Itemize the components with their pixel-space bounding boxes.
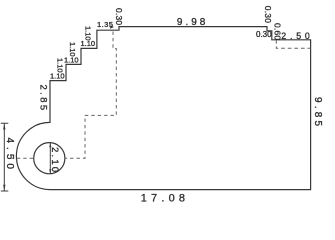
hidden edge top right (dashed) [276, 40, 310, 48]
svg-text:0.30: 0.30 [256, 30, 272, 39]
dimension 4.50 arrow top [3, 123, 5, 129]
svg-text:2.85: 2.85 [37, 85, 48, 113]
dimension 2.10 arrow bottom [49, 169, 51, 174]
svg-text:17.08: 17.08 [141, 192, 190, 204]
svg-text:4.50: 4.50 [4, 138, 15, 173]
dimension 2.10 line inside circle [49, 143, 51, 174]
dimension 4.50 arrow bottom [3, 185, 5, 191]
svg-text:0.30: 0.30 [263, 6, 273, 23]
svg-text:1.10: 1.10 [50, 72, 65, 81]
center line left of circle (dashed) [11, 157, 34, 159]
svg-text:1.10: 1.10 [68, 42, 77, 57]
dimension 2.10 arrow top [49, 143, 51, 148]
part outline [16, 27, 310, 190]
svg-text:9.98: 9.98 [177, 17, 208, 28]
svg-text:1.35: 1.35 [97, 20, 113, 29]
svg-text:1.10: 1.10 [56, 58, 65, 73]
hidden edge left (dashed) [65, 32, 116, 159]
svg-text:1.10: 1.10 [84, 26, 93, 41]
svg-text:9.85: 9.85 [312, 97, 323, 129]
dimension 4.50 line [1, 123, 9, 191]
svg-text:0.30: 0.30 [114, 8, 124, 25]
svg-text:2.10: 2.10 [49, 147, 60, 174]
hole circle [34, 143, 65, 174]
svg-text:2.50: 2.50 [281, 31, 313, 41]
arrowhead at 1.35 step [110, 25, 114, 29]
svg-text:1.10: 1.10 [64, 56, 79, 65]
